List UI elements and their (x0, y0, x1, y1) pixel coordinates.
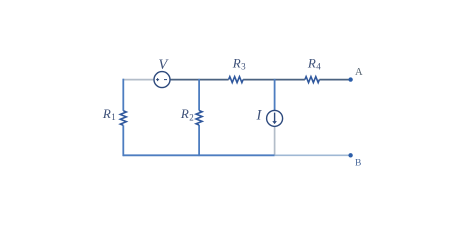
svg-text:4: 4 (316, 62, 321, 72)
wire top right (R4 to terminal A) (319, 79, 348, 81)
current source I (256, 108, 283, 127)
wire left vertical lower (R1 to bottom-left corner) (122, 125, 124, 156)
wire I branch lower (274, 126, 276, 155)
svg-text:V: V (158, 57, 169, 73)
svg-text:R: R (307, 55, 316, 70)
svg-text:B: B (355, 159, 361, 169)
resistor R1 (102, 106, 126, 125)
wire left vertical upper (corner down to R1) (122, 79, 124, 111)
svg-text:A: A (355, 67, 363, 78)
svg-text:R: R (232, 56, 241, 71)
wire R2 branch upper (198, 79, 200, 111)
wire top middle (V source to R3) (170, 79, 229, 81)
svg-text:1: 1 (111, 112, 116, 122)
svg-text:3: 3 (241, 62, 246, 72)
wire top (R3 to R4) (243, 79, 305, 81)
wire bottom left (corner to I branch) (123, 154, 274, 156)
terminal B (348, 153, 361, 168)
wire I branch upper (274, 79, 276, 111)
terminal A (348, 67, 363, 82)
svg-text:I: I (256, 108, 263, 124)
resistor R3 (229, 56, 247, 83)
resistor R4 (305, 55, 321, 82)
resistor R2 (180, 106, 202, 125)
wire R2 branch lower (198, 125, 200, 156)
wire top-left (corner to V source) (123, 79, 154, 81)
svg-text:R: R (180, 106, 189, 121)
wire bottom right (I branch to terminal B) (275, 154, 349, 156)
voltage source V (154, 57, 170, 88)
svg-text:R: R (102, 106, 111, 121)
svg-text:2: 2 (189, 112, 194, 122)
